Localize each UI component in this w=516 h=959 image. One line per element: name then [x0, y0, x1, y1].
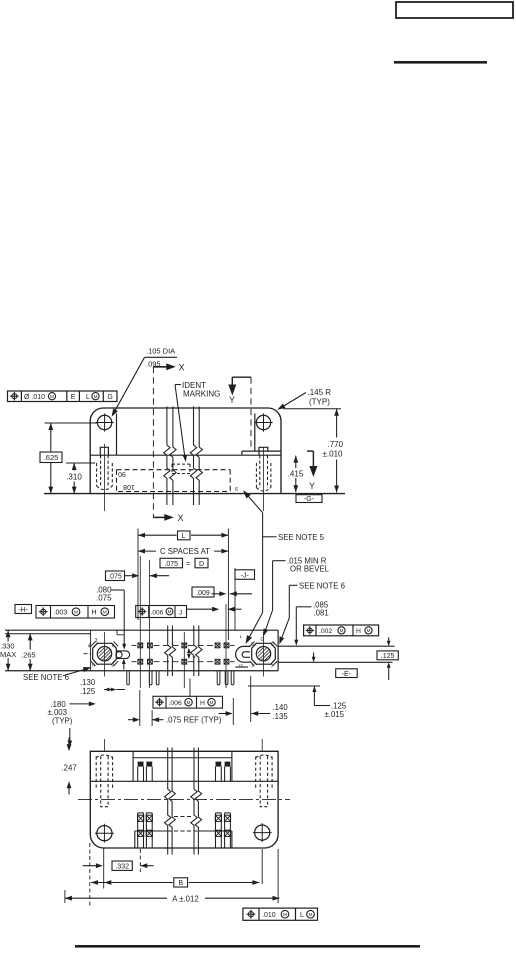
lead cross sections lower row: [138, 659, 143, 664]
section top line: [5, 629, 278, 631]
boxed .075 = boxed D: [160, 558, 183, 568]
svg-text:.095: .095: [146, 360, 161, 369]
svg-text:(TYP): (TYP): [52, 717, 73, 726]
boxed .009: [192, 587, 214, 597]
svg-text:±.015: ±.015: [325, 710, 345, 719]
svg-text:.010: .010: [262, 912, 276, 919]
fcf position dia .010 M E L M G: [8, 391, 118, 402]
svg-text:P: P: [251, 663, 254, 668]
fcf .006 M H M bottom: [153, 696, 223, 708]
lead centerlines extended up: [139, 556, 141, 688]
section line X: [152, 367, 154, 518]
svg-text:Y: Y: [309, 481, 315, 491]
lead cross sections upper row: [138, 643, 143, 648]
svg-text:.009: .009: [196, 590, 210, 597]
svg-text:M: M: [340, 628, 344, 633]
svg-text:G: G: [107, 394, 112, 401]
shoulder line: [90, 454, 281, 456]
svg-text:.081: .081: [314, 609, 329, 618]
body right edge: [277, 630, 279, 671]
right tab top: [278, 645, 394, 647]
top row leads: [138, 762, 144, 767]
svg-text:.003: .003: [54, 610, 68, 617]
fcf .002 M H M small: [304, 625, 379, 636]
svg-text:-J-: -J-: [241, 572, 250, 579]
svg-text:SEE NOTE 6: SEE NOTE 6: [23, 673, 69, 682]
dim .332: [103, 849, 105, 889]
svg-text:.125: .125: [80, 687, 96, 696]
tab inner edge left: [116, 414, 118, 456]
fcf .003 M H M: [36, 606, 115, 619]
svg-text:H: H: [200, 700, 205, 707]
svg-text:.135: .135: [273, 712, 289, 721]
dim B: [89, 843, 91, 906]
svg-text:.145 R: .145 R: [308, 388, 332, 397]
dim .075 REF TYP: [139, 690, 141, 726]
dim .265: [29, 633, 31, 670]
svg-text:L: L: [182, 533, 186, 540]
pill width arrows: [122, 659, 126, 665]
dim .770: [283, 408, 341, 410]
seating plane line: [5, 670, 278, 672]
svg-text:90: 90: [118, 470, 126, 477]
svg-text:4: 4: [88, 643, 91, 649]
svg-text:H: H: [92, 610, 97, 617]
svg-text:=: =: [186, 561, 190, 568]
svg-text:108: 108: [123, 483, 135, 490]
body top surface line: [5, 633, 91, 635]
svg-text:.247: .247: [62, 763, 77, 772]
mounting hole right: [256, 415, 270, 429]
seal centerline: [103, 632, 105, 677]
hidden tab lead left: [96, 755, 112, 758]
svg-text:G: G: [261, 637, 265, 643]
seating baseline: [44, 493, 345, 495]
lead centerline stubs: [103, 739, 105, 751]
boxed .075 pitch dim: [106, 571, 125, 581]
svg-text:.075: .075: [96, 594, 112, 603]
svg-text:.625: .625: [44, 453, 59, 462]
datum H: [15, 605, 32, 614]
fcf .010 M L M bottom: [243, 908, 318, 920]
lead centerline right: [262, 447, 264, 511]
svg-text:Y: Y: [229, 395, 235, 405]
svg-text:P: P: [271, 641, 274, 646]
svg-text:X: X: [178, 513, 184, 523]
svg-text:M: M: [168, 609, 172, 614]
dim .415: [295, 456, 297, 468]
svg-text:C SPACES AT: C SPACES AT: [160, 547, 210, 556]
svg-text:(TYP): (TYP): [309, 398, 330, 407]
svg-text:M: M: [210, 700, 214, 705]
svg-text:M: M: [103, 609, 107, 615]
svg-text:L: L: [300, 912, 304, 919]
mounting hole right bottom view: [255, 825, 270, 840]
svg-text:-H-: -H-: [18, 607, 28, 614]
leads below seating plane: [127, 671, 130, 685]
svg-text:A ±.012: A ±.012: [172, 894, 198, 903]
hidden cavity outline: [117, 469, 231, 471]
svg-text:M: M: [283, 912, 287, 918]
svg-text:SEE NOTE 6: SEE NOTE 6: [299, 582, 345, 591]
leader arrow down to bottom view: [69, 728, 71, 743]
svg-text:.770: .770: [328, 440, 344, 449]
datum J: [235, 570, 255, 580]
ext lines into section: [225, 604, 227, 688]
hidden tab lead right: [256, 755, 272, 758]
seal corner wedges: [91, 642, 96, 647]
dim L: [137, 529, 139, 621]
boxed .125 tab thickness: [388, 637, 390, 642]
mounting hole left: [97, 415, 111, 429]
svg-text:.006: .006: [169, 700, 182, 707]
hidden lead left: [100, 455, 102, 487]
side view body outline: [90, 408, 281, 494]
bottom rule: [75, 945, 420, 948]
lower leads with x squares: [137, 813, 139, 848]
break lines bottom view: [165, 748, 171, 855]
svg-text:-E-: -E-: [342, 671, 352, 678]
lead bump right: [259, 447, 268, 455]
ident marking dashed box: [172, 463, 190, 465]
svg-text:3: 3: [95, 638, 98, 644]
svg-text:-G-: -G-: [304, 496, 315, 503]
svg-text:.075: .075: [164, 561, 178, 568]
datum J extension line: [234, 568, 236, 630]
title box top right: [396, 2, 513, 18]
svg-text:M: M: [367, 628, 371, 633]
tab inner edge right: [254, 414, 256, 452]
svg-text:.075 REF (TYP): .075 REF (TYP): [166, 716, 222, 725]
svg-text:MARKING: MARKING: [183, 390, 220, 399]
dim A +-.012: [64, 890, 66, 903]
svg-text:H: H: [356, 628, 361, 635]
seal pocket step: [116, 630, 118, 635]
datum E: [336, 669, 358, 678]
svg-text:M: M: [187, 700, 191, 705]
horizontal centerline: [78, 799, 290, 801]
lead tip plane: [248, 685, 320, 687]
svg-text:Ø .010: Ø .010: [24, 394, 45, 401]
middle row-space dim: [188, 649, 190, 658]
section line Y upper: [232, 376, 251, 378]
svg-text:MAX: MAX: [0, 650, 16, 659]
svg-text:M: M: [50, 394, 54, 399]
datum G: [296, 495, 322, 503]
svg-text:.125: .125: [381, 653, 395, 660]
svg-text:.130: .130: [80, 678, 96, 687]
hole extension line: [45, 422, 98, 424]
svg-text:H: H: [92, 663, 95, 668]
svg-text:15: 15: [238, 663, 244, 668]
right lead hook: [236, 646, 251, 662]
svg-text:M: M: [309, 912, 313, 918]
svg-text:OR BEVEL: OR BEVEL: [290, 565, 330, 574]
svg-text:9: 9: [235, 485, 238, 491]
lead bump left: [100, 447, 108, 455]
left glass seal octagon: [93, 643, 117, 664]
section line Y lower: [307, 450, 313, 452]
small pointer arrow: [313, 653, 315, 659]
right glass seal octagon: [252, 643, 276, 664]
svg-text:M: M: [94, 394, 98, 399]
svg-text:L: L: [86, 394, 90, 401]
svg-text:E: E: [71, 394, 76, 401]
svg-text:±.010: ±.010: [323, 450, 344, 459]
svg-text:D: D: [199, 561, 204, 568]
svg-text:.310: .310: [66, 473, 82, 482]
break lines side view: [164, 407, 170, 506]
top rule: [394, 61, 487, 64]
right step line: [242, 450, 281, 452]
lead centerline left: [104, 444, 106, 511]
dim .125 +-.015 lead length: [312, 686, 316, 692]
svg-text:SEE NOTE 5: SEE NOTE 5: [278, 533, 325, 542]
svg-text:.415: .415: [288, 469, 304, 478]
dim .310: [66, 462, 95, 464]
dashes between breaks: [174, 816, 192, 818]
svg-text:.075: .075: [108, 574, 122, 581]
svg-text:.140: .140: [273, 703, 289, 712]
seal pocket edge left: [90, 630, 92, 671]
svg-text:X: X: [179, 362, 185, 372]
svg-text:.006: .006: [151, 609, 164, 616]
dim .625: [50, 423, 52, 494]
hidden lead right: [259, 455, 261, 488]
dim C SPACES AT: [138, 550, 228, 552]
svg-text:.265: .265: [21, 651, 36, 660]
row centerline dashes: [132, 644, 137, 646]
svg-text:J: J: [179, 609, 182, 616]
mounting hole left bottom view: [97, 826, 112, 841]
shelf upper: [132, 751, 134, 781]
svg-text:.002: .002: [319, 628, 332, 635]
bottom view outline: [90, 751, 278, 848]
svg-text:S: S: [251, 641, 254, 646]
shelf lower: [135, 830, 167, 832]
svg-text:B: B: [178, 880, 183, 887]
lead pill left: [116, 651, 129, 659]
right tab bottom: [278, 661, 392, 663]
dim .330 MAX: [7, 630, 9, 671]
svg-text:M: M: [74, 609, 78, 615]
break lines section: [165, 626, 171, 677]
fcf .006 M J: [136, 606, 187, 618]
svg-text:.332: .332: [115, 864, 129, 871]
svg-text:.105 DIA: .105 DIA: [146, 347, 175, 356]
